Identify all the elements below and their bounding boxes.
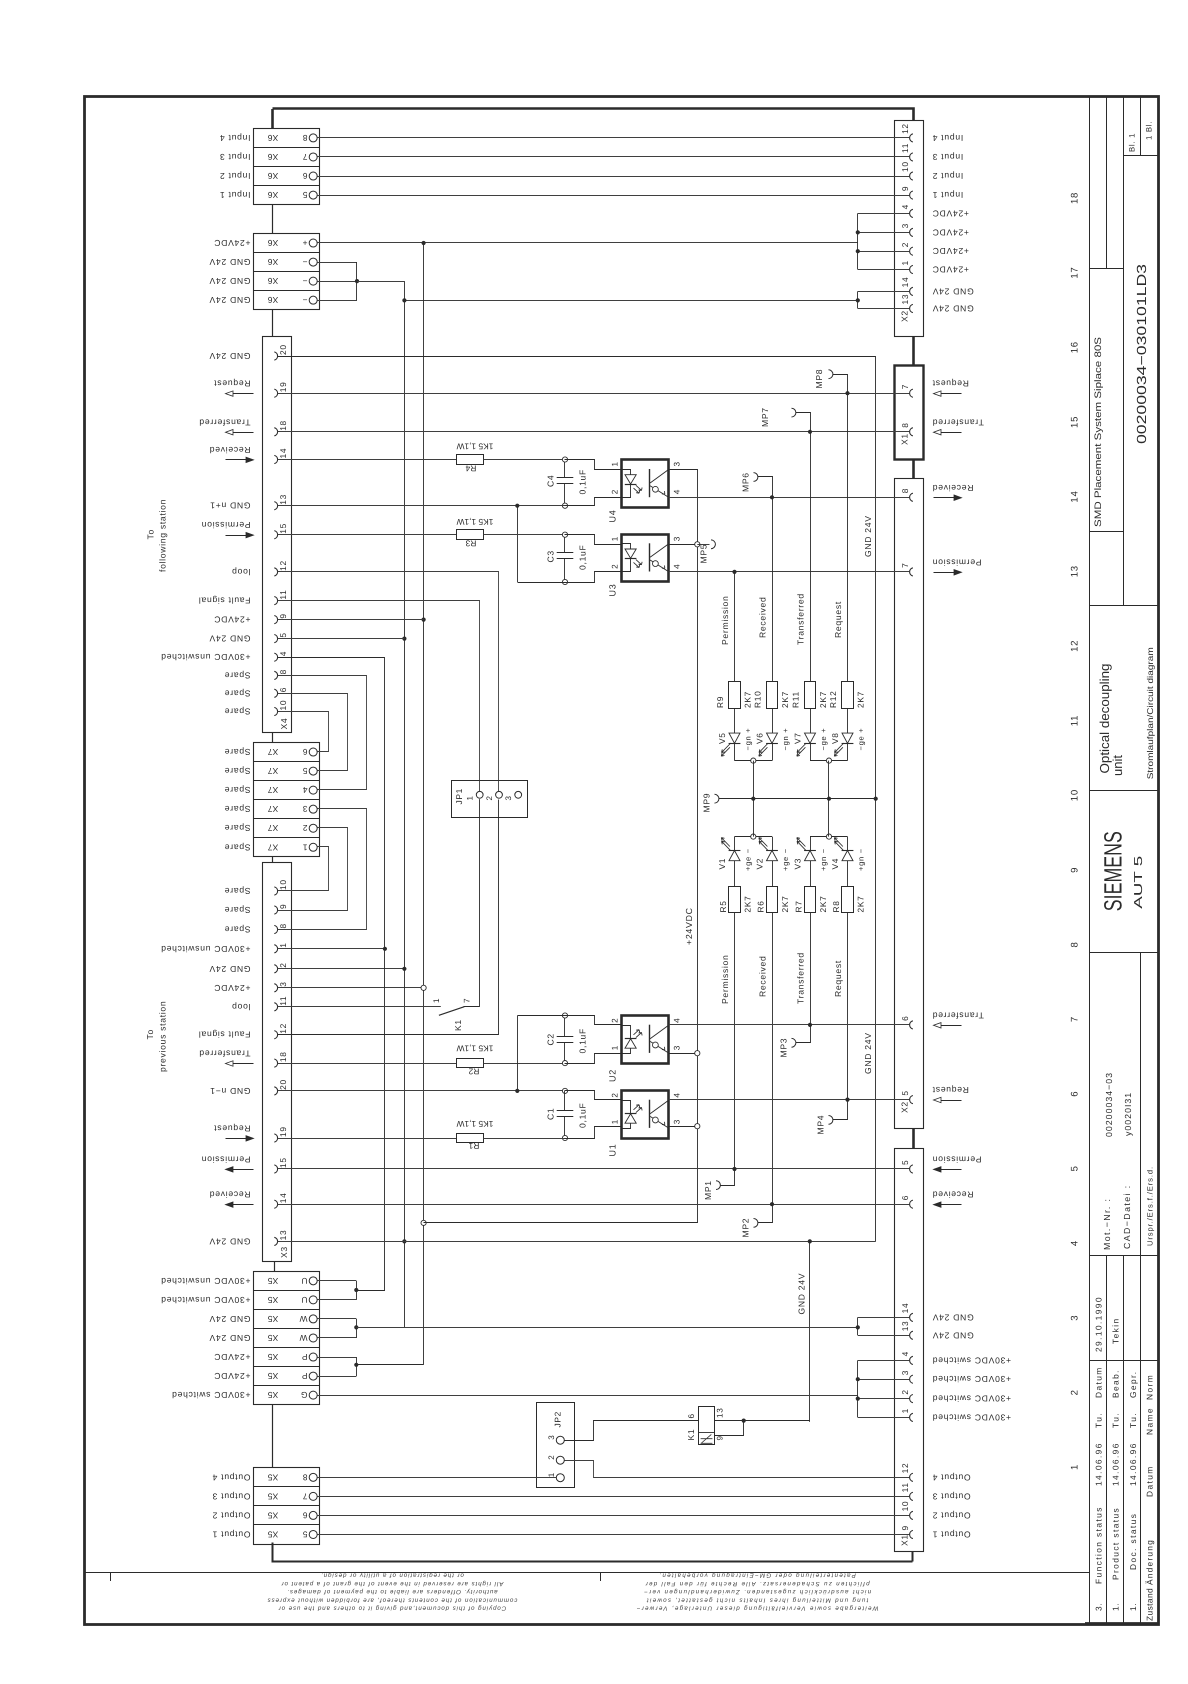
- svg-text:Received: Received: [932, 483, 973, 493]
- svg-text:2: 2: [611, 1018, 620, 1023]
- svg-text:6: 6: [900, 1016, 910, 1021]
- svg-text:Name: Name: [1145, 1407, 1155, 1435]
- X2 GND bracket: [857, 291, 859, 308]
- wire X7 spare O2 to X3.9: [278, 828, 348, 911]
- svg-text:0,1uF: 0,1uF: [578, 1103, 588, 1128]
- svg-text:−ge +: −ge +: [819, 728, 828, 751]
- thick stub X2C to X1D: [912, 1129, 915, 1149]
- svg-text:11: 11: [900, 143, 910, 153]
- svg-text:GND 24V: GND 24V: [209, 257, 251, 267]
- X4 pin 14 Received: [274, 455, 277, 463]
- wire Transferred lower X3.18 R2 line: [278, 1063, 458, 1065]
- svg-text:5: 5: [900, 1160, 910, 1165]
- svg-text:Input 3: Input 3: [932, 152, 963, 162]
- svg-text:X5: X5: [268, 1491, 279, 1501]
- svg-text:Received: Received: [758, 597, 768, 638]
- wire Transferred upper X4.18 to X1.8: [278, 431, 910, 433]
- svg-text:14: 14: [1070, 491, 1081, 503]
- wire U2 pin4 Transferred to X2.6: [669, 1024, 910, 1026]
- svg-text:4: 4: [900, 204, 910, 209]
- frame tick marks: [110, 1573, 112, 1581]
- svg-text:X5: X5: [268, 1371, 279, 1381]
- svg-text:16: 16: [1070, 341, 1081, 353]
- svg-text:8: 8: [900, 488, 910, 493]
- thick stub X1B to X2C: [912, 459, 915, 479]
- X4 pin 15 Permission: [274, 531, 277, 539]
- svg-text:nicht ausdrücklich zugestanden: nicht ausdrücklich zugestanden. Zuwiderh…: [643, 1588, 871, 1595]
- svg-text:Norm: Norm: [1145, 1374, 1155, 1400]
- svg-text:14: 14: [278, 1192, 288, 1203]
- svg-text:6: 6: [1070, 1091, 1081, 1097]
- svg-text:Input 4: Input 4: [932, 133, 963, 143]
- svg-text:V5: V5: [717, 732, 727, 744]
- X1 +30VDC switched bracket: [857, 1360, 859, 1417]
- svg-text:Permission: Permission: [720, 954, 730, 1004]
- wire GND 24V to X1 bracket: [356, 1327, 858, 1329]
- svg-text:R7: R7: [794, 900, 804, 912]
- svg-text:X6: X6: [268, 171, 279, 181]
- X2 pin 12 Input 4: [910, 134, 913, 142]
- svg-text:+30VDC unswitched: +30VDC unswitched: [160, 1276, 250, 1286]
- svg-text:8: 8: [302, 133, 307, 143]
- svg-text:AUT 5: AUT 5: [1133, 856, 1145, 909]
- LED V8 ge: [847, 708, 849, 733]
- svg-text:V1: V1: [717, 858, 727, 870]
- svg-text:Permission: Permission: [201, 520, 251, 530]
- svg-text:Product status: Product status: [1111, 1507, 1121, 1580]
- svg-text:7: 7: [463, 998, 472, 1003]
- svg-text:+ge −: +ge −: [744, 848, 753, 871]
- wire C3 to U3 pin1: [565, 535, 622, 545]
- svg-text:+24VDC: +24VDC: [214, 238, 251, 248]
- wire GND n-1 X3.20: [278, 1090, 566, 1092]
- svg-text:GND 24V: GND 24V: [209, 295, 251, 305]
- svg-text:X4: X4: [279, 718, 289, 730]
- svg-text:3.: 3.: [1094, 1603, 1104, 1611]
- U3 pin3 stub: [669, 544, 698, 546]
- svg-text:Spare: Spare: [224, 707, 250, 717]
- svg-text:1 Bl.: 1 Bl.: [1145, 121, 1154, 140]
- svg-text:or the registration of a utili: or the registration of a utility or desi…: [320, 1572, 464, 1579]
- svg-text:12: 12: [278, 560, 288, 571]
- title block vertical line x1141 top: [1140, 97, 1142, 156]
- svg-text:0,1uF: 0,1uF: [578, 1028, 588, 1053]
- svg-text:3: 3: [673, 1045, 682, 1050]
- svg-text:G: G: [300, 1390, 307, 1400]
- resistor R4: [278, 459, 458, 461]
- svg-text:X5: X5: [268, 1510, 279, 1520]
- svg-text:Mot.−Nr. :: Mot.−Nr. :: [1102, 1198, 1112, 1250]
- svg-text:2K7: 2K7: [818, 895, 828, 912]
- svg-text:3: 3: [673, 1119, 682, 1124]
- X2 pin 7 Permission: [910, 568, 913, 576]
- title block divider y1256: [1089, 1255, 1157, 1257]
- svg-text:14.06.96: 14.06.96: [1128, 1442, 1138, 1486]
- capacitor C4: [562, 457, 567, 462]
- resistor R2: [457, 1059, 484, 1068]
- wire V7 chain vertical: [810, 432, 812, 682]
- svg-text:14: 14: [900, 1303, 910, 1314]
- test point MP5: [697, 544, 709, 546]
- wire U4 pin4 Received to X2.8: [669, 497, 910, 499]
- test point MP6: [758, 477, 773, 498]
- svg-text:1: 1: [900, 1408, 910, 1413]
- svg-text:MP7: MP7: [760, 407, 770, 427]
- connector block X2: [895, 121, 924, 337]
- svg-text:5: 5: [1070, 1165, 1081, 1171]
- svg-text:X7: X7: [268, 804, 279, 814]
- svg-text:Output 1: Output 1: [212, 1529, 251, 1539]
- svg-text:GND 24V: GND 24V: [209, 634, 251, 644]
- X1 pin 12 Output 4: [910, 1473, 913, 1481]
- X2 pin 13 GND 24V: [910, 304, 913, 312]
- svg-text:Fault signal: Fault signal: [198, 1030, 250, 1040]
- svg-text:12: 12: [1070, 640, 1081, 652]
- svg-text:8: 8: [278, 669, 288, 674]
- wire X6b to X4: [272, 310, 274, 337]
- svg-text:15: 15: [1070, 416, 1081, 428]
- svg-text:GND 24V: GND 24V: [932, 1312, 974, 1322]
- svg-text:Beab.: Beab.: [1111, 1369, 1121, 1398]
- svg-text:X6: X6: [268, 152, 279, 162]
- title block bottom thick: [1085, 1622, 1159, 1625]
- svg-text:Änderung: Änderung: [1145, 1539, 1155, 1585]
- svg-text:P: P: [301, 1352, 307, 1362]
- X1 pin 4 +30VDC switched: [910, 1356, 913, 1364]
- svg-text:1.: 1.: [1128, 1603, 1138, 1611]
- svg-text:−: −: [302, 257, 308, 267]
- svg-text:X6: X6: [268, 276, 279, 286]
- svg-text:loop: loop: [231, 1002, 250, 1012]
- svg-text:GND 24V: GND 24V: [863, 515, 873, 557]
- svg-text:18: 18: [278, 1051, 288, 1062]
- terminal block connector X6 inputs: [254, 129, 320, 205]
- svg-text:10: 10: [278, 879, 288, 890]
- wire X7 spare O1 to X3.10: [278, 847, 329, 891]
- wire X5b bottom stub: [273, 1543, 913, 1562]
- X3 pin 11 loop: [274, 1003, 277, 1011]
- svg-text:12: 12: [900, 123, 910, 134]
- svg-text:1: 1: [611, 1045, 620, 1050]
- svg-text:Request: Request: [833, 601, 843, 638]
- svg-text:GND 24V: GND 24V: [797, 1273, 807, 1315]
- title block divider y532: [1089, 531, 1123, 533]
- svg-text:GND 24V: GND 24V: [209, 1333, 251, 1343]
- svg-text:Output 1: Output 1: [932, 1529, 971, 1539]
- svg-text:6: 6: [302, 171, 307, 181]
- capacitor C2: [562, 1061, 567, 1066]
- X3 pin 18 Transferred: [274, 1059, 277, 1067]
- svg-text:Weitergabe sowie Vervielfältig: Weitergabe sowie Vervielfältigung dieser…: [635, 1605, 878, 1612]
- svg-text:communication of the contents: communication of the contents thereof, a…: [267, 1596, 518, 1603]
- svg-text:X5: X5: [268, 1472, 279, 1482]
- svg-text:3: 3: [673, 461, 682, 466]
- svg-text:13: 13: [900, 294, 910, 305]
- svg-text:Function status: Function status: [1094, 1506, 1104, 1584]
- svg-text:X6: X6: [268, 238, 279, 248]
- svg-text:3: 3: [278, 981, 288, 986]
- svg-text:+24VDC: +24VDC: [932, 227, 969, 237]
- X2 pin 3 +24VDC: [910, 228, 913, 236]
- wire JP2.3 to K1 coil pin6: [565, 1421, 699, 1441]
- wire GND n+1 X4.13 to U4 pin2: [278, 505, 566, 507]
- title block vertical line x1089: [1089, 97, 1091, 1624]
- wire V4 chain vertical lower: [847, 913, 849, 1100]
- svg-text:7: 7: [900, 563, 910, 568]
- svg-text:4: 4: [278, 651, 288, 656]
- svg-text:6: 6: [302, 747, 307, 757]
- svg-text:+24VDC: +24VDC: [214, 1352, 251, 1362]
- svg-text:R4: R4: [465, 463, 476, 473]
- svg-text:2: 2: [900, 242, 910, 247]
- svg-text:3: 3: [1070, 1315, 1081, 1321]
- X2 pin 14 GND 24V: [910, 287, 913, 295]
- svg-text:−gn +: −gn +: [744, 728, 753, 751]
- svg-text:Request: Request: [932, 1085, 969, 1095]
- svg-text:13: 13: [278, 494, 288, 505]
- svg-text:R11: R11: [791, 691, 801, 708]
- wire Input 4 line: [317, 137, 909, 139]
- wire X6a to X6b: [272, 205, 274, 234]
- svg-text:R9: R9: [715, 696, 725, 708]
- svg-text:7: 7: [302, 1491, 307, 1501]
- svg-text:Transferred: Transferred: [796, 593, 806, 645]
- svg-text:Permission: Permission: [932, 1155, 982, 1165]
- svg-text:18: 18: [278, 420, 288, 431]
- wire GND X4.5: [278, 638, 405, 640]
- svg-text:6: 6: [278, 687, 288, 692]
- svg-text:Input 3: Input 3: [219, 152, 250, 162]
- wire C1 to U1 pin2: [565, 1091, 622, 1100]
- svg-text:−gn +: −gn +: [781, 728, 790, 751]
- terminal block connector X5 power: [254, 1272, 320, 1405]
- svg-text:MP4: MP4: [816, 1115, 826, 1135]
- svg-text:1: 1: [611, 1119, 620, 1124]
- svg-text:2K7: 2K7: [818, 691, 828, 708]
- svg-text:19: 19: [278, 1126, 288, 1137]
- svg-text:X7: X7: [268, 785, 279, 795]
- X4 pin 11 Fault signal: [274, 597, 277, 605]
- svg-text:7: 7: [302, 152, 307, 162]
- svg-text:X7: X7: [268, 823, 279, 833]
- svg-text:R10: R10: [753, 691, 763, 708]
- wire Output 3 line: [317, 1496, 909, 1498]
- svg-text:To: To: [145, 1029, 155, 1039]
- JP1 pin2 wire down to fault lower: [278, 800, 499, 1035]
- svg-text:R5: R5: [718, 900, 728, 912]
- MP9 bus: [719, 798, 876, 800]
- LED V6 gn: [772, 708, 774, 733]
- optocoupler U1: [622, 1091, 669, 1139]
- svg-text:Spare: Spare: [224, 842, 250, 852]
- svg-text:C3: C3: [546, 550, 556, 562]
- wire X7 to X3: [272, 857, 274, 862]
- svg-text:Fault signal: Fault signal: [198, 596, 250, 606]
- svg-text:X3: X3: [279, 1246, 289, 1258]
- wire V1-V2 pair join lower: [735, 836, 773, 838]
- wire X5a to X5b: [272, 1405, 274, 1468]
- svg-text:2: 2: [611, 564, 620, 569]
- svg-text:Output 2: Output 2: [932, 1510, 971, 1520]
- svg-text:3: 3: [900, 223, 910, 228]
- svg-text:pflichten zu Schadenersatz. Al: pflichten zu Schadenersatz. Alle Rechte …: [644, 1580, 870, 1587]
- svg-text:X5: X5: [268, 1295, 279, 1305]
- svg-text:Spare: Spare: [224, 688, 250, 698]
- svg-text:R2: R2: [468, 1067, 479, 1077]
- svg-text:15: 15: [278, 523, 288, 534]
- svg-text:Request: Request: [214, 1124, 251, 1134]
- svg-text:1: 1: [432, 998, 441, 1003]
- svg-text:GND 24V: GND 24V: [209, 1236, 251, 1246]
- X4 pin 5 GND 24V: [274, 635, 277, 643]
- svg-text:X6: X6: [268, 295, 279, 305]
- svg-text:R12: R12: [828, 691, 838, 708]
- wire C2 to U2 pin1: [565, 1054, 622, 1064]
- svg-text:1K5 1,1W: 1K5 1,1W: [457, 1043, 494, 1053]
- wire Input 2 line: [317, 176, 909, 178]
- svg-text:Transferred: Transferred: [199, 417, 251, 427]
- resistor R1: [457, 1134, 484, 1143]
- svg-text:Permission: Permission: [720, 595, 730, 645]
- svg-text:R8: R8: [831, 900, 841, 912]
- svg-text:Request: Request: [833, 960, 843, 997]
- svg-text:7: 7: [1070, 1016, 1081, 1022]
- X1 pin 5 Permission: [910, 1165, 913, 1173]
- svg-text:10: 10: [900, 161, 910, 172]
- LED V2 ge: [772, 837, 774, 851]
- svg-text:y0020I31: y0020I31: [1123, 1092, 1133, 1136]
- svg-text:Urspr./Ers.f./Ers.d.: Urspr./Ers.f./Ers.d.: [1146, 1166, 1155, 1246]
- X4 pin 6 Spare: [274, 689, 277, 697]
- X3 pin 13 GND 24V: [274, 1237, 277, 1245]
- jumper JP1: [452, 781, 528, 818]
- top bus thick wire: [273, 109, 914, 121]
- X3 pin 2 GND 24V: [274, 965, 277, 973]
- X2 pin 11 Input 3: [910, 153, 913, 161]
- X2 pin 5 Request: [910, 1096, 913, 1104]
- svg-text:V8: V8: [830, 732, 840, 744]
- svg-text:13: 13: [900, 1321, 910, 1332]
- title block vertical line x1141 middle: [1140, 952, 1142, 1623]
- svg-text:1: 1: [466, 795, 475, 800]
- svg-text:1: 1: [1070, 1464, 1081, 1470]
- svg-text:+24VDC: +24VDC: [214, 983, 251, 993]
- svg-text:+30VDC switched: +30VDC switched: [932, 1412, 1011, 1422]
- wire Received lower X3.14 to X1.6: [278, 1204, 910, 1206]
- svg-text:6: 6: [900, 1195, 910, 1200]
- svg-text:3: 3: [302, 804, 307, 814]
- svg-text:Datum: Datum: [1145, 1465, 1155, 1497]
- X2 pin 6 Transferred: [910, 1021, 913, 1029]
- svg-text:−: −: [302, 295, 308, 305]
- svg-text:11: 11: [900, 1482, 910, 1492]
- terminal block connector X7 spares: [254, 743, 320, 857]
- resistor R11 2K7: [805, 682, 816, 709]
- svg-text:11: 11: [278, 996, 288, 1006]
- title block divider y790: [1089, 790, 1157, 792]
- svg-text:Tu.: Tu.: [1128, 1412, 1138, 1428]
- resistor R7 2K7: [805, 887, 816, 913]
- X3 pin 14 Received: [274, 1200, 277, 1208]
- svg-text:11: 11: [1070, 715, 1081, 726]
- svg-text:SIEMENS: SIEMENS: [1099, 831, 1127, 911]
- svg-text:7: 7: [900, 384, 910, 389]
- svg-text:Spare: Spare: [224, 747, 250, 757]
- svg-text:GND 24V: GND 24V: [863, 1032, 873, 1074]
- svg-text:V4: V4: [830, 858, 840, 870]
- terminal block connector X5 outputs: [254, 1468, 320, 1545]
- wire Permission lower X3.15 to X1.5: [278, 1168, 910, 1170]
- svg-text:MP8: MP8: [814, 369, 824, 389]
- svg-text:+30VDC unswitched: +30VDC unswitched: [160, 944, 250, 954]
- U1 pin3 stub: [669, 1126, 698, 1128]
- LED V3 gn: [810, 837, 812, 851]
- svg-text:MP6: MP6: [741, 472, 751, 492]
- svg-text:13: 13: [1070, 565, 1081, 577]
- svg-text:13: 13: [716, 1407, 725, 1418]
- svg-text:X5: X5: [268, 1352, 279, 1362]
- svg-text:9: 9: [278, 613, 288, 618]
- X2 pin 2 +24VDC: [910, 247, 913, 255]
- pin3 rail +24VDC x697: [424, 470, 698, 1223]
- svg-text:20: 20: [278, 344, 288, 355]
- svg-text:1K5 1,1W: 1K5 1,1W: [457, 442, 494, 452]
- X2 pin 9 Input 1: [910, 191, 913, 199]
- svg-text:X1: X1: [900, 1534, 910, 1546]
- svg-text:00200034−03: 00200034−03: [1104, 1072, 1114, 1137]
- svg-text:2K7: 2K7: [856, 691, 866, 708]
- svg-text:GND 24V: GND 24V: [209, 1314, 251, 1324]
- svg-text:3: 3: [900, 1370, 910, 1375]
- resistor R12 2K7: [842, 682, 854, 709]
- title block vertical line x1106 top: [1106, 97, 1108, 269]
- resistor R10 2K7: [767, 682, 778, 709]
- svg-text:+30VDC switched: +30VDC switched: [932, 1394, 1011, 1404]
- svg-text:17: 17: [1070, 267, 1081, 279]
- svg-text:Received: Received: [209, 445, 250, 455]
- svg-text:X7: X7: [268, 842, 279, 852]
- svg-text:1K5 1,1W: 1K5 1,1W: [457, 517, 494, 527]
- svg-text:Tu.: Tu.: [1111, 1412, 1121, 1428]
- connector strip X4: [263, 337, 292, 733]
- X5 +30VDC unswitched bracket: [317, 1280, 356, 1282]
- svg-text:K1: K1: [453, 1019, 463, 1031]
- svg-text:Received: Received: [209, 1190, 250, 1200]
- svg-text:+24VDC: +24VDC: [932, 208, 969, 218]
- wire V5 chain vertical: [734, 572, 736, 682]
- svg-text:Input 1: Input 1: [219, 190, 250, 200]
- svg-text:Transferred: Transferred: [796, 952, 806, 1004]
- X6 GND bracket: [317, 262, 357, 264]
- wire X6a top stub to bus: [271, 109, 274, 128]
- inner frame bottom line: [85, 1572, 1089, 1574]
- wire Input 1 line: [317, 195, 909, 197]
- svg-text:+ge −: +ge −: [781, 848, 790, 871]
- title block divider y269: [1089, 268, 1123, 270]
- svg-text:MP3: MP3: [779, 1038, 789, 1058]
- svg-text:U2: U2: [608, 1069, 618, 1082]
- wire +30VDC switched X5.G to X1 bracket: [317, 1395, 858, 1397]
- svg-text:4: 4: [1070, 1240, 1081, 1246]
- X4 pin 18 Transferred: [274, 428, 277, 436]
- svg-text:+24VDC: +24VDC: [214, 615, 251, 625]
- svg-text:18: 18: [1070, 192, 1081, 204]
- X2 pin 1 +24VDC: [910, 265, 913, 273]
- LED V4 gn: [847, 837, 849, 851]
- svg-text:Spare: Spare: [224, 670, 250, 680]
- connector strip X3: [263, 863, 292, 1262]
- svg-text:Transferred: Transferred: [932, 1010, 984, 1020]
